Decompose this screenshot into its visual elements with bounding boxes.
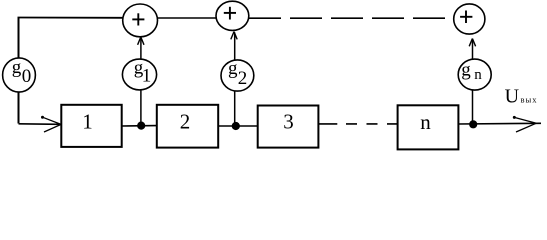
adder A1 <box>123 4 158 37</box>
wire: top horizontal from corner to adder A1 <box>18 17 124 19</box>
wire: dashed line adder A2 to adder An <box>249 17 454 19</box>
svg-text:3: 3 <box>283 109 294 133</box>
register stage 3 <box>258 106 319 148</box>
label U_out <box>505 86 538 108</box>
adder An <box>454 4 485 34</box>
svg-text:n: n <box>474 67 482 83</box>
wire: stage 3 to dashed section <box>318 123 337 125</box>
svg-text:U: U <box>505 86 520 108</box>
svg-text:n: n <box>420 110 431 134</box>
adder A2 <box>216 1 249 30</box>
junction node 1 <box>137 122 145 130</box>
junction node n <box>469 120 477 128</box>
arrow into adder A1 bottom <box>138 37 144 45</box>
coefficient circle g0 <box>3 57 36 92</box>
wire: adder A1 to adder A2 <box>157 17 217 19</box>
arrow into adder A2 bottom <box>231 32 237 40</box>
wire: stage 1 to stage 2 <box>122 125 157 127</box>
svg-text:1: 1 <box>82 109 93 133</box>
arrow into adder An bottom <box>469 39 475 47</box>
register stage 2 <box>157 105 218 148</box>
wire: input line from corner to stage 1 <box>19 123 60 126</box>
register stage n <box>398 105 459 149</box>
svg-text:0: 0 <box>22 66 32 87</box>
wire: stage n to output <box>458 122 541 125</box>
coefficient circle g2 <box>221 58 254 91</box>
svg-text:g: g <box>461 60 471 81</box>
wire: left vertical feedback line <box>18 18 20 124</box>
wire: stage 2 to stage 3 <box>218 125 258 127</box>
svg-text:вых: вых <box>521 95 538 105</box>
wire: vertical from node n up through gn to adder An <box>472 40 474 125</box>
wire: dashed line stage 3 to stage n <box>346 123 398 125</box>
svg-text:2: 2 <box>238 68 248 89</box>
svg-text:g: g <box>12 57 22 78</box>
coefficient circle gn <box>458 59 491 90</box>
svg-text:2: 2 <box>180 109 191 133</box>
output arrow head <box>513 116 537 132</box>
arrow into stage 1 <box>41 116 61 132</box>
register stage 1 <box>61 105 121 147</box>
coefficient circle g1 <box>122 57 156 89</box>
junction node 2 <box>232 122 240 130</box>
wire: vertical from node 2 up through g2 to adder A2 <box>234 33 236 127</box>
svg-text:g: g <box>228 58 238 79</box>
wire: vertical from node 1 up through g1 to adder A1 <box>140 38 142 126</box>
svg-text:1: 1 <box>142 65 152 86</box>
